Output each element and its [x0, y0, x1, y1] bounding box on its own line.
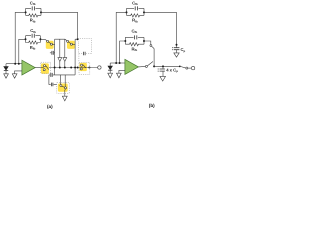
svg-text:Cfb: Cfb [132, 0, 138, 6]
svg-text:Rfb: Rfb [132, 18, 138, 24]
svg-text:Rfb: Rfb [30, 45, 36, 51]
svg-text:Rfb: Rfb [132, 46, 138, 52]
svg-text:(b): (b) [149, 103, 155, 108]
svg-text:4 x Cp: 4 x Cp [166, 67, 178, 73]
svg-text:Cfb: Cfb [30, 0, 36, 6]
svg-text:Cp: Cp [181, 47, 186, 53]
svg-text:Cfb: Cfb [30, 28, 36, 34]
svg-text:Cfb: Cfb [132, 28, 138, 34]
svg-text:(a): (a) [47, 104, 53, 109]
svg-text:Rfb: Rfb [30, 18, 36, 24]
